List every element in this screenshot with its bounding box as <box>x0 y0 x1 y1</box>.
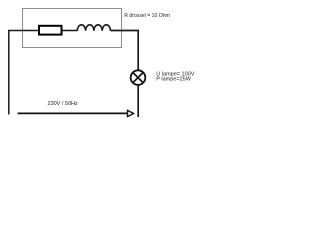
lamp circle <box>131 70 146 85</box>
wire lamp bottom down <box>137 85 139 117</box>
enclosure box (drossel housing) <box>23 9 122 48</box>
wire resistor to inductor <box>62 30 78 32</box>
source arrow line 230V <box>18 112 128 114</box>
lamp X stroke 2 <box>133 73 143 83</box>
inductor L drossel (4 arcs) <box>77 25 110 31</box>
wire inductor right then down to lamp <box>111 31 139 71</box>
svg-text:P lampe=25W: P lampe=25W <box>156 77 191 83</box>
arrowhead open triangle <box>128 110 134 116</box>
wire left: top horizontal into left vertical drop <box>9 31 39 115</box>
svg-text:R drossel = 10 Ohm: R drossel = 10 Ohm <box>124 13 170 19</box>
svg-text:230V / 50Hz: 230V / 50Hz <box>48 101 79 107</box>
lamp X stroke 1 <box>133 73 143 83</box>
resistor R drossel <box>39 26 62 35</box>
